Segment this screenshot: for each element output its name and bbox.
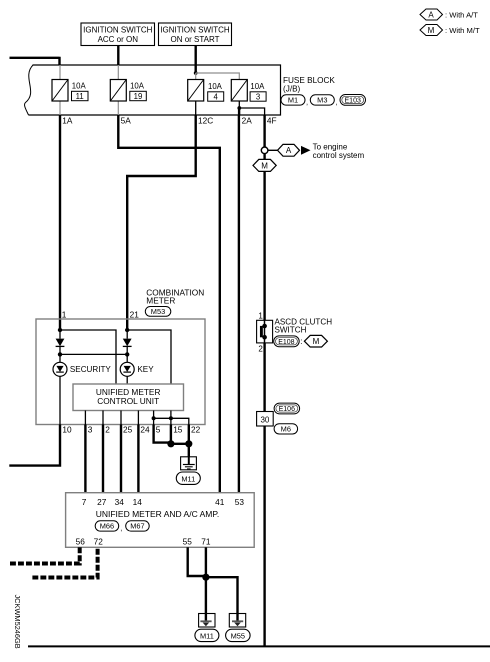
wire control unit to pin 25 bbox=[120, 411, 122, 425]
security lamp bbox=[53, 354, 111, 376]
diode D1 bbox=[56, 330, 65, 354]
svg-text:M3: M3 bbox=[317, 96, 327, 105]
svg-text:1: 1 bbox=[62, 310, 67, 320]
ignition switch ACC or ON box bbox=[81, 23, 155, 46]
svg-text:3: 3 bbox=[88, 425, 93, 435]
connector M11 bottom bbox=[195, 629, 219, 641]
wire pin 2 to amp pin 27 bbox=[102, 425, 104, 493]
wire pin 10 off-page left bbox=[9, 425, 61, 466]
fuse block band outline bbox=[25, 65, 281, 115]
svg-text:: With A/T: : With A/T bbox=[445, 10, 478, 19]
legend badge A : With A/T bbox=[420, 9, 478, 20]
wire pin 24 to amp pin 14 bbox=[137, 425, 139, 493]
badge M for E108 bbox=[304, 335, 327, 347]
connector E108 bbox=[274, 336, 303, 347]
wire control unit to pin 2 bbox=[102, 411, 104, 425]
svg-text:53: 53 bbox=[235, 497, 245, 507]
svg-text:41: 41 bbox=[215, 497, 225, 507]
connector M6 bbox=[274, 424, 298, 434]
svg-text:4F: 4F bbox=[267, 116, 277, 126]
wire 4F down bbox=[263, 115, 265, 147]
connector M3 bbox=[310, 95, 337, 107]
fuse 10A 4 bbox=[188, 80, 224, 102]
page bottom rule bbox=[28, 645, 490, 647]
node below D1 bbox=[58, 352, 62, 356]
combination meter box bbox=[36, 319, 205, 425]
svg-text::: : bbox=[300, 337, 302, 346]
node pin21 junction bbox=[125, 328, 129, 332]
node below D2 bbox=[125, 352, 129, 356]
node junction 2A/4F bbox=[237, 106, 241, 110]
svg-text:M55: M55 bbox=[231, 632, 245, 641]
connector M67 bbox=[126, 521, 150, 531]
svg-text:7: 7 bbox=[82, 497, 87, 507]
connector M55 bbox=[226, 629, 251, 641]
wire ASCD to connector 30 bbox=[263, 343, 265, 412]
connector M66 bbox=[95, 521, 122, 533]
COMBINATION METER label bbox=[146, 287, 204, 305]
wire below fuse 4 (12C) bbox=[195, 101, 197, 115]
svg-text:ACC or ON: ACC or ON bbox=[98, 35, 139, 44]
wire 4F to ASCD clutch switch bbox=[263, 171, 265, 320]
svg-text:SECURITY: SECURITY bbox=[70, 365, 112, 374]
svg-text:,: , bbox=[120, 524, 122, 533]
svg-text:M6: M6 bbox=[281, 425, 291, 434]
wire ground bus bbox=[171, 443, 189, 445]
wire battery feed top-left bbox=[10, 57, 60, 65]
svg-text:4: 4 bbox=[214, 93, 219, 102]
fuse 10A 3 bbox=[231, 80, 266, 102]
svg-text:71: 71 bbox=[201, 537, 211, 547]
ground M11 earth symbol bbox=[181, 457, 197, 470]
svg-text:,: , bbox=[306, 98, 308, 107]
svg-text:A: A bbox=[428, 10, 434, 19]
svg-text:(J/B): (J/B) bbox=[283, 84, 301, 93]
svg-text:10A: 10A bbox=[250, 82, 265, 91]
ASCD clutch switch bbox=[257, 312, 333, 354]
node junction feed of fuses 4 and 3 bbox=[194, 71, 198, 75]
svg-text:21: 21 bbox=[130, 310, 140, 320]
wire branch to 4F bbox=[239, 108, 264, 115]
wire pin 22 to ground bbox=[188, 425, 190, 457]
svg-text:,: , bbox=[336, 98, 338, 107]
wire 4F continues bbox=[263, 154, 265, 160]
svg-text:34: 34 bbox=[115, 497, 125, 507]
svg-text:IGNITION SWITCH: IGNITION SWITCH bbox=[160, 26, 230, 35]
connector M1 bbox=[281, 95, 308, 107]
wire 2A to unified meter amp pin 53 bbox=[238, 108, 241, 493]
svg-text:15: 15 bbox=[173, 425, 183, 435]
svg-text:M1: M1 bbox=[288, 96, 298, 105]
svg-text:JCKWM5246GB: JCKWM5246GB bbox=[13, 595, 22, 649]
svg-text:M: M bbox=[313, 337, 320, 346]
ground body symbol left bbox=[199, 614, 215, 628]
wire inside band above fuse 19 bbox=[117, 65, 119, 80]
node ground junction 71 bbox=[202, 574, 209, 581]
svg-text:METER: METER bbox=[146, 296, 175, 306]
svg-text:M53: M53 bbox=[151, 307, 165, 316]
badge A branch bbox=[278, 144, 300, 156]
connector M11 bbox=[176, 472, 200, 484]
svg-text:M11: M11 bbox=[181, 474, 195, 483]
svg-text:E108: E108 bbox=[278, 339, 294, 346]
wire control unit to pin 15 bbox=[170, 411, 172, 425]
svg-text:2: 2 bbox=[105, 425, 110, 435]
wire control unit to pin 5 bbox=[153, 411, 155, 425]
connector 30 box bbox=[257, 412, 274, 427]
svg-text:M67: M67 bbox=[130, 522, 144, 531]
svg-text:12C: 12C bbox=[198, 116, 213, 126]
svg-text:56: 56 bbox=[76, 537, 86, 547]
svg-text:72: 72 bbox=[94, 537, 104, 547]
wire shielded pin 72 off-page bbox=[31, 547, 98, 577]
svg-text:10: 10 bbox=[62, 425, 72, 435]
wire internal ground bus to pin 22 bbox=[154, 418, 189, 424]
wire below fuse 3 bbox=[238, 101, 240, 108]
wire pin 25 to amp pin 34 bbox=[120, 425, 122, 493]
wire branch to fuse 3 bbox=[196, 73, 240, 80]
wire pin1 branch to control unit bbox=[60, 330, 116, 384]
svg-text:27: 27 bbox=[97, 497, 107, 507]
svg-text:19: 19 bbox=[134, 92, 143, 101]
wire security lamp to pin 10 bbox=[59, 376, 61, 424]
node pin1 junction bbox=[58, 328, 62, 332]
svg-text:CONTROL UNIT: CONTROL UNIT bbox=[97, 396, 159, 406]
svg-text:M66: M66 bbox=[100, 522, 114, 531]
wire 5A to unified meter amp pin 41 bbox=[117, 115, 220, 493]
svg-text:5: 5 bbox=[156, 425, 161, 435]
FUSE BLOCK (J/B) label bbox=[283, 76, 335, 93]
wire pin21 branch to control unit bbox=[127, 330, 171, 384]
svg-text:control system: control system bbox=[313, 151, 365, 160]
svg-text:11: 11 bbox=[76, 92, 84, 101]
wire inside band below fuse 19 bbox=[117, 101, 119, 115]
svg-text:22: 22 bbox=[191, 425, 201, 435]
wire pin 3 to amp pin 7 bbox=[84, 425, 86, 493]
wire splice to A badge bbox=[268, 149, 278, 151]
wire branch to ground M55 bbox=[206, 577, 238, 613]
svg-text:M11: M11 bbox=[200, 632, 214, 641]
svg-text:25: 25 bbox=[123, 425, 133, 435]
wire inside band above fuse 11 bbox=[59, 65, 61, 80]
svg-text:24: 24 bbox=[140, 425, 150, 435]
svg-text:IGNITION SWITCH: IGNITION SWITCH bbox=[83, 26, 153, 35]
legend badge M : With M/T bbox=[420, 25, 480, 36]
wire key lamp to control unit bbox=[126, 376, 128, 384]
unified meter and a/c amp box bbox=[66, 493, 255, 548]
svg-text:30: 30 bbox=[260, 415, 269, 424]
wire control unit to pin 24 bbox=[137, 411, 139, 425]
wire pin 55 to ground junction bbox=[188, 547, 206, 577]
svg-text:5A: 5A bbox=[121, 116, 132, 126]
wire inside band to fuse 4 bbox=[195, 73, 197, 80]
svg-text:KEY: KEY bbox=[137, 365, 154, 374]
connector E106 bbox=[274, 403, 300, 414]
svg-text:10A: 10A bbox=[72, 82, 87, 91]
unified meter control unit box bbox=[73, 384, 184, 411]
svg-text:1: 1 bbox=[258, 312, 263, 321]
svg-text:E106: E106 bbox=[279, 406, 295, 413]
svg-text:SWITCH: SWITCH bbox=[275, 326, 307, 335]
wire 12C to combination meter pin 21 bbox=[127, 115, 197, 330]
node ground bus pin5 bbox=[152, 416, 156, 420]
node ground bus pin15 bbox=[169, 416, 173, 420]
wire pin 71 to ground M11 bbox=[205, 547, 207, 613]
wire ignition ACC to fuse 19 bbox=[117, 46, 119, 66]
svg-text:10A: 10A bbox=[208, 82, 223, 91]
wire connector 30 down to bottom bbox=[263, 426, 265, 646]
svg-text:A: A bbox=[286, 146, 292, 155]
wire shielded pin 56 off-page bbox=[10, 547, 80, 563]
wire pin 5 to ground bus bbox=[154, 425, 171, 444]
arrow to engine control system bbox=[301, 146, 311, 155]
svg-text:: With M/T: : With M/T bbox=[445, 26, 480, 35]
svg-text:ON or START: ON or START bbox=[170, 35, 219, 44]
wire inside band below fuse 11 bbox=[59, 101, 61, 115]
node splice circle bbox=[261, 147, 268, 154]
svg-text:M: M bbox=[261, 161, 268, 170]
connector M53 bbox=[145, 307, 171, 317]
wire control unit to pin 3 bbox=[84, 411, 86, 425]
svg-text:2A: 2A bbox=[242, 116, 253, 126]
key lamp bbox=[120, 354, 154, 376]
wire rail between diodes bbox=[60, 353, 127, 355]
svg-text:10A: 10A bbox=[130, 82, 145, 91]
wire ignition ON/START to fuse 4 bbox=[194, 46, 196, 74]
svg-text:To engine: To engine bbox=[313, 142, 348, 151]
node ground junction 22 bbox=[185, 440, 192, 447]
svg-text:1A: 1A bbox=[62, 116, 73, 126]
badge M on 4F wire bbox=[253, 159, 276, 171]
svg-text:UNIFIED METER AND A/C AMP.: UNIFIED METER AND A/C AMP. bbox=[96, 509, 220, 519]
fuse 10A 19 bbox=[110, 80, 146, 102]
ground body symbol right bbox=[229, 614, 245, 628]
svg-text:55: 55 bbox=[183, 537, 193, 547]
svg-text:2: 2 bbox=[258, 345, 263, 354]
wire pin 15 to ground bus bbox=[170, 425, 172, 444]
svg-text:M: M bbox=[428, 26, 435, 35]
ignition switch ON or START box bbox=[159, 23, 232, 46]
svg-text:14: 14 bbox=[133, 497, 143, 507]
svg-text:E103: E103 bbox=[345, 98, 361, 105]
fuse 10A 11 bbox=[52, 80, 88, 102]
wire 1A to combination meter pin 1 bbox=[59, 115, 61, 330]
node ground junction 15 bbox=[167, 440, 174, 447]
connector E103 bbox=[340, 95, 366, 106]
svg-text:3: 3 bbox=[256, 93, 260, 102]
diode D2 bbox=[123, 330, 132, 354]
